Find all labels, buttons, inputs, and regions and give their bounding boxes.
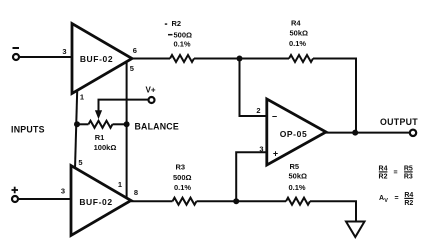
svg-text:V: V: [384, 198, 388, 204]
svg-text:R3: R3: [404, 173, 413, 180]
svg-text:500Ω: 500Ω: [173, 173, 192, 182]
label R5 value: [289, 162, 308, 192]
svg-text:OP-05: OP-05: [280, 129, 308, 139]
wire R3 to node B: [197, 200, 287, 202]
svg-text:3: 3: [62, 47, 66, 56]
wire R2 to node A: [194, 58, 289, 60]
wire R4 to output feedback corner: [313, 59, 356, 133]
svg-text:INPUTS: INPUTS: [11, 125, 45, 135]
svg-text:+: +: [273, 149, 278, 159]
svg-text:100kΩ: 100kΩ: [94, 143, 117, 152]
op-amp U3 OP-05: [267, 99, 326, 165]
equation R4/R2 = R5/R3: [379, 166, 413, 181]
output node junction dot: [352, 130, 358, 136]
wire node B up to OP-05 pin 3: [236, 152, 267, 201]
svg-text:BUF-02: BUF-02: [80, 54, 113, 64]
label R1 value: [94, 133, 117, 152]
svg-text:50kΩ: 50kΩ: [289, 172, 308, 181]
svg-text:50kΩ: 50kΩ: [290, 29, 309, 38]
svg-text:8: 8: [134, 188, 138, 197]
svg-text:0.1%: 0.1%: [174, 183, 191, 192]
svg-text:3: 3: [259, 144, 263, 153]
label R4 value: [289, 19, 308, 48]
wire minus input to BUF-02 A pin 3: [19, 56, 72, 58]
svg-text:5: 5: [78, 158, 82, 167]
svg-text:1: 1: [80, 93, 84, 102]
node B junction dot: [233, 198, 239, 204]
svg-text:R5: R5: [290, 162, 300, 171]
svg-text:=: =: [393, 170, 397, 177]
wire plus input to BUF-02 B pin 3: [18, 198, 71, 200]
svg-text:R1: R1: [95, 133, 105, 142]
junction dot pot left: [74, 121, 80, 127]
svg-text:R4: R4: [291, 19, 301, 28]
svg-text:A: A: [379, 195, 384, 202]
svg-text:2: 2: [256, 106, 260, 115]
op-amp buffer U2 BUF-02 (bottom): [71, 166, 131, 236]
input terminal minus: [13, 48, 20, 60]
wire OP-05 output to OUTPUT terminal: [326, 132, 410, 134]
wire right null rail (pin 5 top to pin 1 bottom): [126, 61, 128, 198]
potentiometer R1 100k: [77, 121, 127, 128]
svg-text:OUTPUT: OUTPUT: [380, 117, 418, 127]
svg-text:R2: R2: [172, 19, 182, 28]
wire node A down to OP-05 pin 2: [240, 59, 267, 117]
resistor R3 500 ohm: [173, 198, 197, 205]
svg-text:BALANCE: BALANCE: [135, 121, 179, 131]
resistor R2 500 ohm: [170, 55, 194, 62]
ground: [346, 222, 365, 238]
svg-text:R3: R3: [176, 163, 186, 172]
resistor R4 50k: [289, 55, 313, 62]
svg-text:=: =: [394, 195, 398, 202]
svg-text:R4: R4: [404, 192, 413, 199]
resistor R5 50k: [286, 198, 310, 205]
svg-text:0.1%: 0.1%: [289, 39, 306, 48]
label R3 value: [173, 163, 192, 193]
label R2 value: [165, 19, 192, 49]
svg-text:5: 5: [130, 64, 134, 73]
svg-text:0.1%: 0.1%: [174, 40, 191, 49]
op-amp buffer U1 BUF-02 (top): [72, 24, 132, 94]
node A junction dot: [237, 56, 243, 62]
input terminal plus: [12, 187, 19, 202]
svg-text:6: 6: [133, 46, 137, 55]
svg-text:R2: R2: [379, 173, 388, 180]
svg-text:V+: V+: [145, 86, 155, 95]
svg-text:3: 3: [61, 187, 65, 196]
svg-text:R2: R2: [404, 200, 413, 207]
svg-text:−: −: [272, 112, 277, 122]
wire left null rail (pin 1 top to pin 5 bottom): [75, 91, 77, 170]
svg-text:BUF-02: BUF-02: [79, 197, 112, 207]
wire BUF-02 A output to R2: [132, 58, 170, 60]
svg-text:500Ω: 500Ω: [174, 30, 193, 39]
equation Av = R4/R2: [379, 192, 413, 207]
V+ terminal: [149, 97, 155, 103]
junction dot pot right: [124, 121, 130, 127]
R1 wiper arrow to V+: [95, 100, 148, 120]
wire BUF-02 B output to R3: [131, 200, 173, 202]
svg-text:1: 1: [118, 180, 122, 189]
output terminal: [410, 130, 416, 136]
svg-text:0.1%: 0.1%: [289, 183, 306, 192]
wire R5 to ground corner: [310, 201, 356, 221]
